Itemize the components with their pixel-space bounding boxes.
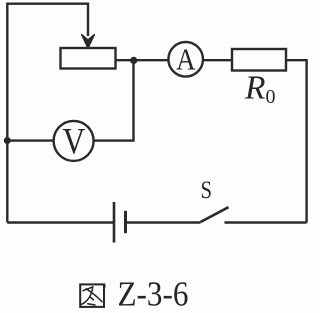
wire R0 to right rail down to switch bbox=[286, 60, 307, 222]
voltmeter U-V circle bbox=[54, 121, 94, 161]
battery short plate bbox=[124, 211, 127, 233]
svg-text:R0: R0 bbox=[244, 70, 275, 108]
rheostat box bbox=[61, 48, 116, 69]
wire rheostat output to node A bbox=[116, 59, 169, 61]
wire bottom left to battery bbox=[7, 221, 113, 223]
battery long plate bbox=[113, 202, 116, 243]
switch blade bbox=[201, 207, 229, 222]
wire left rail and top wire bbox=[7, 4, 88, 223]
arrowhead of rheostat bbox=[82, 35, 95, 49]
svg-text:Z-3-6: Z-3-6 bbox=[118, 275, 189, 313]
svg-text:V: V bbox=[62, 121, 85, 162]
resistor R0 box bbox=[232, 49, 286, 71]
node A junction dot bbox=[130, 57, 137, 64]
svg-text:A: A bbox=[176, 43, 195, 77]
svg-text:S: S bbox=[201, 177, 213, 204]
wire voltmeter to left rail bbox=[7, 139, 53, 141]
caption character 图 bbox=[80, 284, 105, 307]
wire switch to right rail bbox=[225, 221, 307, 223]
wire node A down and left to voltmeter bbox=[94, 60, 134, 140]
wire battery to switch bbox=[127, 221, 201, 223]
wire ammeter to R0 bbox=[203, 59, 232, 61]
junction dot on left rail bbox=[4, 137, 11, 144]
ammeter U-A circle bbox=[168, 42, 203, 77]
